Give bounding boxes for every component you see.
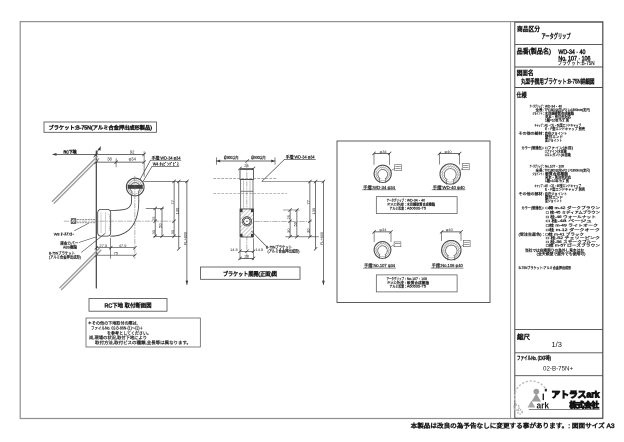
detail callout box 4 (462, 245, 464, 247)
dim 50 (front) (296, 210, 298, 237)
top reference line (144, 180, 188, 182)
svg-text:25: 25 (286, 214, 291, 219)
svg-text:キャップ: キャップ (535, 123, 543, 128)
bottom extension lines (239, 239, 241, 260)
svg-text:アルミ芯金: アルミ芯金 (390, 206, 405, 211)
dim 77/30 (front) (309, 182, 311, 237)
extension y236.8 (286, 236, 319, 238)
leader 座金カバー (79, 237, 97, 243)
svg-text:ジョイント: ジョイント (533, 112, 543, 116)
svg-text:30: 30 (170, 229, 175, 234)
rail bottom dashed line (214, 193, 288, 195)
svg-text:本製品は改良の為予告なしに変更する事があります。: 図面サイ: 本製品は改良の為予告なしに変更する事があります。: 図面サイズ A3 (411, 422, 616, 430)
svg-text:□エレガント(木目調): □エレガント(木目調) (545, 152, 571, 157)
detail enclosure box (337, 141, 490, 303)
section title box RC下地 取付断面図 (89, 299, 167, 312)
svg-text:□栓 m-57 ローズブラウン: □栓 m-57 ローズブラウン (546, 243, 601, 248)
extension line 38 (115, 159, 117, 168)
svg-text:W8 ｵｰﾙｱﾝｶｰ: W8 ｵｰﾙｱﾝｶｰ (54, 231, 74, 236)
right detail box (337, 141, 490, 303)
body joint line (241, 190, 253, 192)
svg-text:□ 栓-48 ベージュ: □ 栓-48 ベージュ (546, 218, 592, 223)
gear centerline (255, 220, 312, 222)
logo person body (532, 393, 542, 401)
svg-text:(受注生産色): (受注生産色) (519, 231, 542, 236)
svg-text:ブラケット展開(正面)図: ブラケット展開(正面)図 (223, 270, 277, 278)
top reference line (front) (262, 181, 324, 183)
logo dashed arc (514, 381, 546, 404)
svg-text:1/3: 1/3 (552, 340, 562, 349)
svg-text:φ34: φ34 (129, 156, 137, 161)
detail callout box 3 (391, 245, 394, 247)
svg-text:47.5: 47.5 (119, 243, 128, 248)
svg-text:直ジョイント: 直ジョイント (545, 138, 562, 143)
spec block 2 (519, 164, 601, 271)
plate hidden details (100, 213, 102, 234)
svg-text:14.5: 14.5 (230, 247, 239, 252)
svg-text:縮尺: 縮尺 (517, 332, 531, 341)
FL height arrow (186, 181, 188, 284)
svg-text:ブラケット:B-75N: ブラケット:B-75N (558, 59, 595, 67)
RC下地 arrow (53, 153, 96, 155)
svg-text:株式会社: 株式会社 (570, 401, 600, 410)
bracket arm top curve (111, 201, 132, 211)
svg-text:27.5: 27.5 (99, 243, 108, 248)
svg-text:92: 92 (130, 150, 135, 155)
svg-text:ABS樹脂: ABS樹脂 (63, 243, 77, 249)
logo group (514, 381, 600, 414)
svg-text:FL+800: FL+800 (183, 232, 187, 245)
extension line y208 (146, 207, 164, 209)
handrail ring WD-40 (440, 164, 460, 184)
extension line right (143, 152, 145, 177)
dimension 92 (96, 153, 144, 155)
svg-text:図面名: 図面名 (517, 68, 534, 77)
middle view (201, 153, 325, 285)
svg-text:E・F型エンドキャップ 別売: E・F型エンドキャップ 別売 (545, 126, 586, 131)
title block box (515, 22, 603, 418)
dimension 14.5 14.5 (240, 250, 254, 252)
svg-text:□栓 m-49 ライトオーク: □栓 m-49 ライトオーク (546, 223, 598, 228)
svg-text:丸型手摺用ブラケット:B-75N詳細図: 丸型手摺用ブラケット:B-75N詳細図 (521, 77, 595, 86)
svg-text:□ 栓-46 ウォールナット: □ 栓-46 ウォールナット (546, 214, 596, 219)
svg-text:商品区分: 商品区分 (517, 24, 540, 33)
notes box (86, 318, 200, 347)
svg-text:アトラスark: アトラスark (552, 390, 600, 400)
leader W8 オールアンカー (75, 223, 89, 231)
section title box ブラケット展開(正面)図 (201, 267, 301, 279)
svg-text:1梱=10本 ｻｲｽﾞ別: 1梱=10本 ｻｲｽﾞ別 (545, 178, 570, 183)
svg-text:(アルミ合金押出成形): (アルミ合金押出成形) (49, 253, 82, 259)
dim 25/30 (front) (289, 210, 291, 237)
svg-text:130: 130 (311, 207, 316, 214)
svg-text:14.5: 14.5 (256, 247, 265, 252)
logo gear cluster (514, 405, 519, 410)
@900 dimension line (216, 160, 275, 162)
detail callout box 2 (461, 168, 463, 170)
dimension 75 (96, 254, 135, 256)
wall top mark (94, 147, 101, 157)
handrail ring WD-34 (374, 165, 391, 182)
handrail circle section (126, 178, 144, 196)
svg-text:30: 30 (151, 229, 156, 234)
anchor bolt dashed (72, 218, 97, 220)
svg-text:38: 38 (107, 156, 112, 161)
title block row lines (515, 44, 603, 46)
svg-text:ジョイント: ジョイント (533, 172, 543, 176)
svg-text:(アルミ合金押出成形): (アルミ合金押出成形) (268, 248, 301, 254)
svg-text:□栓 m-12 ダークオーク: □栓 m-12 ダークオーク (546, 227, 600, 232)
svg-text:: □栂 m-42 ダークブラウン: : □栂 m-42 ダークブラウン (543, 205, 601, 210)
gear hole (242, 217, 251, 226)
logo person head (533, 389, 539, 395)
svg-text:130: 130 (174, 207, 179, 214)
dimension 27.5 / 47.5 (96, 247, 135, 249)
svg-text:アータグリップ: アータグリップ (542, 32, 571, 41)
svg-text:75: 75 (114, 250, 119, 255)
svg-text:77: 77 (306, 199, 311, 204)
FL height arrow (front) (322, 182, 324, 285)
plate front hatched (240, 209, 254, 237)
wall line (95, 151, 97, 288)
anchor head (71, 219, 76, 224)
svg-text:その他の部材: その他の部材 (519, 191, 544, 196)
dim 50 line (161, 208, 163, 236)
svg-text:@900以内: @900以内 (224, 154, 239, 161)
extension y210 (283, 209, 299, 211)
svg-text:@900以内: @900以内 (251, 154, 266, 161)
notes lines (88, 319, 191, 346)
svg-text:1梱=10本 ｻｲｽﾞ別: 1梱=10本 ｻｲｽﾞ別 (545, 118, 570, 123)
wall hatch band 1 (52, 157, 97, 202)
svg-text:ark: ark (537, 400, 550, 410)
svg-text:30: 30 (306, 228, 311, 233)
handrail ring No.107 (374, 242, 391, 259)
svg-text:ファイルNo. (DXF時): ファイルNo. (DXF時) (517, 354, 551, 362)
svg-text:取付方法,取付ビスの種類,全長等は異なります。: 取付方法,取付ビスの種類,全長等は異なります。 (95, 339, 191, 346)
vertical centerline (246, 164, 248, 260)
svg-text:仕様: 仕様 (517, 90, 527, 99)
svg-text:RC下地 取付断面図: RC下地 取付断面図 (105, 302, 152, 310)
handrail ring No.106 (442, 241, 461, 260)
dimension 38 / φ34 (96, 161, 144, 163)
logo underline (529, 409, 600, 411)
svg-text:直ジョイント: 直ジョイント (545, 198, 562, 203)
extension line y236 (154, 235, 181, 237)
material text box A (376, 197, 457, 214)
bracket stem (131, 196, 133, 201)
svg-text:カラー(普通色): カラー(普通色) (522, 145, 543, 150)
svg-text:(全天候型で屋外でも使用可): (全天候型で屋外でも使用可) (537, 251, 586, 256)
detail callout box 1 (391, 169, 394, 171)
leader B-75N bracket (front) (252, 231, 267, 247)
title block divider line (510, 22, 512, 419)
svg-text:50: 50 (293, 221, 298, 226)
svg-text:25: 25 (151, 216, 156, 221)
svg-text:キャップ: キャップ (535, 183, 543, 188)
logo triangle (528, 401, 536, 408)
bracket body front (241, 180, 253, 209)
svg-text:: A6063S-T5: : A6063S-T5 (405, 207, 426, 211)
svg-text:E・F型エンドキャップ 別売: E・F型エンドキャップ 別売 (545, 186, 586, 191)
svg-text:50: 50 (158, 223, 163, 228)
left view (44, 122, 200, 347)
leader B-75N bracket (82, 234, 106, 253)
wall hatch band 2 (60, 248, 99, 287)
svg-text:アルミ芯金: アルミ芯金 (390, 284, 405, 289)
svg-text:B-75Nブラケット:アルミ合金押出成形: B-75Nブラケット:アルミ合金押出成形 (519, 265, 572, 270)
saddle top rect (240, 170, 254, 180)
svg-text:02-B-75N+: 02-B-75N+ (543, 366, 573, 373)
center line horizontal (64, 220, 174, 222)
wall plate 取付座 (98, 209, 111, 236)
dim 130 (front) (315, 182, 317, 249)
svg-text:品番(製品名): 品番(製品名) (517, 47, 552, 56)
rail centerline dashed (214, 178, 278, 180)
dim 130 line (178, 181, 180, 249)
saddle bar in circle (128, 185, 143, 189)
svg-text:FL+800: FL+800 (320, 232, 324, 245)
svg-text:28: 28 (244, 254, 249, 259)
logo accent bar (545, 389, 547, 392)
svg-text:φ40: φ40 (446, 227, 454, 232)
svg-text:ブラケット:B-75N(アルミ合金押出成形製品): ブラケット:B-75N(アルミ合金押出成形製品) (49, 124, 153, 132)
extension line plate edge (110, 238, 112, 259)
bracket arm bottom curve (111, 201, 139, 237)
svg-text:その他の部材: その他の部材 (519, 131, 544, 136)
center line vertical (stem axis) (134, 176, 136, 259)
svg-text:WD-34 · 40: WD-34 · 40 (558, 50, 586, 56)
svg-text:φ34: φ34 (379, 227, 387, 232)
svg-text:カラー(普通色): カラー(普通色) (522, 205, 543, 210)
svg-text:77: 77 (170, 199, 175, 204)
svg-text:: A6063S-T5: : A6063S-T5 (405, 285, 426, 289)
svg-text:RC下地: RC下地 (64, 148, 78, 155)
dim 25/30 line (154, 208, 156, 236)
svg-text:30: 30 (286, 228, 291, 233)
material text box B (376, 275, 457, 292)
spec block 1 (519, 104, 591, 158)
label box ブラケット:B-75N (44, 122, 157, 132)
dim 77/30 line (173, 181, 175, 236)
